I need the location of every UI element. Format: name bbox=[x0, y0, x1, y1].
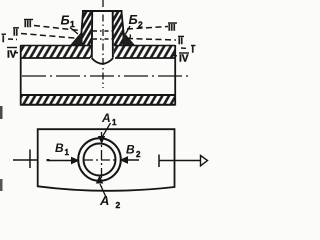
label B2 bbox=[126, 143, 141, 160]
svg-text:IV: IV bbox=[179, 54, 189, 65]
section line II in bore bbox=[93, 38, 112, 40]
svg-text:2: 2 bbox=[138, 20, 143, 30]
label II left bbox=[13, 28, 19, 38]
weld fillet left bbox=[71, 32, 83, 46]
label III right bbox=[168, 23, 177, 33]
main pipe right end line bbox=[174, 45, 176, 106]
arrow B2 line and head (right of circle) bbox=[120, 156, 140, 164]
section line III left (dashed) bbox=[34, 26, 80, 31]
plan horizontal centerline inside circle bbox=[84, 159, 115, 161]
main pipe top wall hatch right bbox=[114, 46, 175, 58]
plan vertical centerline bbox=[101, 132, 103, 187]
svg-text:Б: Б bbox=[61, 13, 70, 28]
main pipe top wall outline bbox=[21, 46, 176, 59]
scan smudge left edge upper bbox=[0, 106, 3, 119]
svg-text:В: В bbox=[126, 143, 135, 157]
open arrowhead right bbox=[201, 156, 208, 166]
label B2 (weld) bbox=[126, 12, 144, 34]
weld fillet right bbox=[123, 32, 135, 46]
scan smudge left edge lower bbox=[0, 179, 3, 191]
label B1 bbox=[55, 141, 70, 157]
section line II right (dashed) bbox=[127, 39, 176, 41]
view direction line right with tick bbox=[159, 155, 200, 168]
branch pipe right wall bbox=[113, 12, 124, 58]
plan horizontal centerline dot bbox=[47, 159, 50, 161]
section line IV left (dash) bbox=[14, 52, 21, 55]
label A2 with leader bbox=[99, 184, 121, 210]
inner circle (branch ID) bbox=[84, 144, 116, 176]
svg-text:II: II bbox=[13, 28, 18, 38]
main pipe horizontal centerline bbox=[22, 75, 190, 77]
weld hook arc right bbox=[126, 35, 131, 40]
label IV left bbox=[7, 48, 17, 61]
main pipe left end line bbox=[20, 45, 22, 106]
plan centerline tick left bbox=[29, 150, 31, 169]
svg-text:II: II bbox=[178, 36, 183, 46]
section line IV right (dash) bbox=[172, 55, 180, 58]
main pipe bottom wall outline bbox=[21, 95, 176, 105]
section line II left (dashed) bbox=[21, 34, 80, 39]
svg-text:2: 2 bbox=[116, 200, 121, 210]
section line I right (dash) bbox=[181, 47, 189, 50]
arrow A1 head (top of circle) bbox=[98, 136, 105, 144]
section line III in bore bbox=[93, 30, 112, 32]
svg-text:III: III bbox=[24, 19, 32, 29]
svg-text:2: 2 bbox=[136, 150, 141, 159]
svg-text:Б: Б bbox=[129, 12, 138, 27]
section line I left (dash) bbox=[8, 38, 17, 41]
branch pipe left wall bbox=[81, 12, 92, 58]
label IV right bbox=[179, 53, 189, 65]
main pipe bottom wall hatch bbox=[21, 96, 175, 105]
plan rectangle bbox=[38, 129, 175, 191]
label A1 with leader bbox=[101, 111, 117, 137]
label I right bbox=[191, 45, 196, 55]
saddle bore arc in top wall bbox=[92, 58, 114, 64]
outer circle (branch OD) bbox=[78, 138, 121, 181]
label II right bbox=[178, 36, 184, 46]
svg-text:А: А bbox=[101, 111, 111, 125]
svg-text:III: III bbox=[168, 23, 176, 33]
label III left bbox=[24, 19, 33, 29]
branch vertical centerline bbox=[102, 0, 104, 88]
label I left bbox=[2, 34, 7, 44]
main pipe top wall hatch left bbox=[21, 46, 91, 58]
arrow B1 line and head (left of circle) bbox=[48, 157, 80, 165]
svg-text:1: 1 bbox=[112, 118, 117, 127]
section line III right (dashed) bbox=[127, 27, 168, 30]
arrow A2 head (bottom of circle) bbox=[96, 175, 104, 184]
svg-text:В: В bbox=[55, 141, 64, 155]
svg-text:IV: IV bbox=[7, 50, 17, 61]
plan horizontal centerline left bbox=[13, 159, 37, 161]
label B1 (weld) bbox=[61, 13, 79, 35]
svg-text:А: А bbox=[99, 193, 109, 208]
svg-text:1: 1 bbox=[65, 148, 70, 157]
branch pipe top edge bbox=[82, 10, 123, 12]
svg-text:I: I bbox=[2, 34, 5, 44]
